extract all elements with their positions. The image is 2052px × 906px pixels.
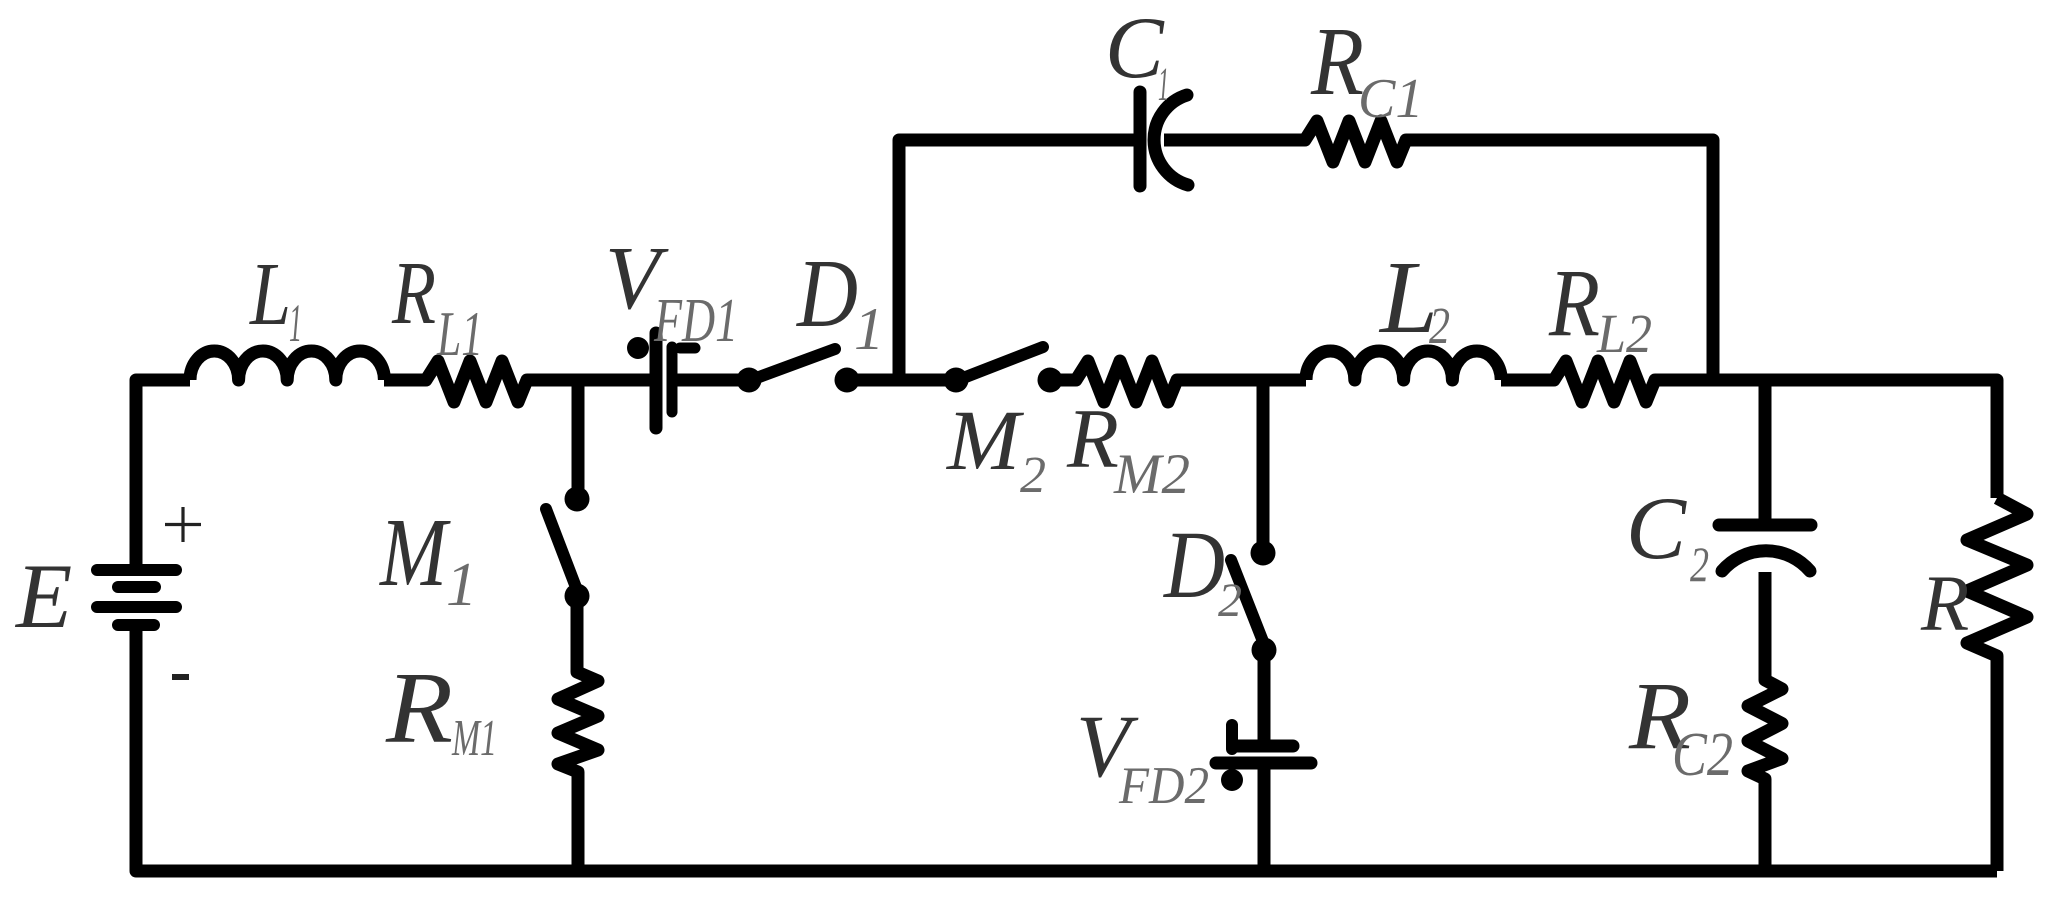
svg-text:L2: L2 [1596, 303, 1652, 364]
svg-text:M2: M2 [1113, 443, 1190, 506]
svg-text:R: R [391, 244, 436, 343]
svg-text:L1: L1 [436, 298, 483, 369]
svg-text:1: 1 [446, 551, 477, 619]
svg-text:2: 2 [1429, 298, 1450, 355]
svg-text:2: 2 [1218, 574, 1242, 627]
svg-text:L: L [248, 245, 291, 344]
svg-text:D: D [1162, 511, 1225, 618]
svg-text:M: M [945, 392, 1024, 488]
svg-text:C2: C2 [1672, 721, 1733, 789]
svg-text:M: M [378, 499, 451, 607]
svg-text:2: 2 [1020, 447, 1046, 504]
svg-text:1: 1 [289, 293, 302, 353]
svg-text:C: C [1626, 480, 1688, 578]
svg-text:R: R [1310, 8, 1364, 115]
svg-text:R: R [1066, 392, 1119, 486]
svg-text:R: R [1920, 561, 1969, 648]
svg-text:R: R [1548, 249, 1600, 356]
svg-text:C: C [1105, 0, 1165, 97]
svg-text:FD2: FD2 [1118, 757, 1209, 815]
svg-text:FD1: FD1 [653, 287, 738, 355]
svg-text:C1: C1 [1358, 68, 1423, 130]
svg-text:R: R [385, 652, 453, 765]
svg-text:D: D [795, 240, 858, 347]
svg-text:M1: M1 [451, 710, 497, 767]
svg-text:2: 2 [1690, 536, 1709, 592]
svg-text:1: 1 [1158, 58, 1169, 111]
svg-text:1: 1 [854, 296, 884, 362]
svg-text:E: E [14, 545, 72, 647]
